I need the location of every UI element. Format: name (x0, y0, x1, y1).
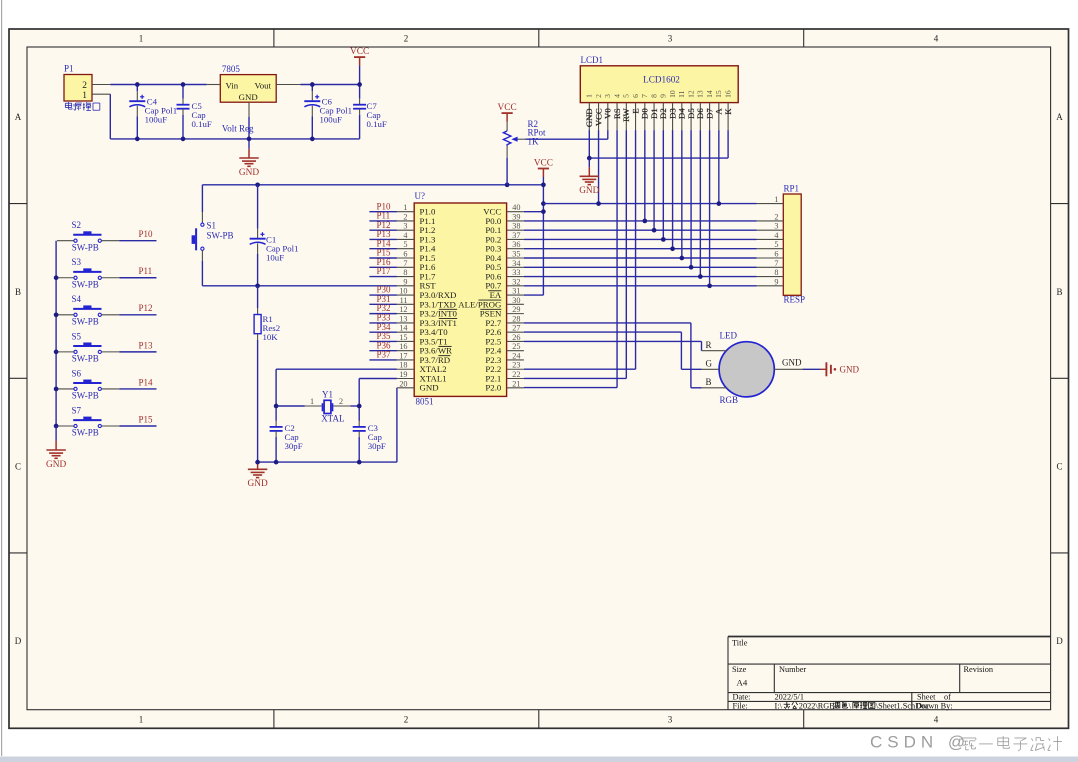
svg-text:2: 2 (403, 212, 407, 221)
svg-text:of: of (944, 693, 951, 702)
svg-text:17: 17 (399, 351, 407, 360)
svg-text:20: 20 (399, 379, 407, 388)
svg-text:P1: P1 (64, 64, 74, 74)
svg-text:10: 10 (668, 90, 677, 98)
svg-text:Number: Number (779, 665, 806, 674)
svg-text:2: 2 (404, 34, 409, 44)
svg-text:GND: GND (46, 460, 66, 470)
svg-text:2: 2 (404, 715, 409, 725)
svg-text:4: 4 (774, 231, 778, 240)
svg-text:3: 3 (668, 34, 673, 44)
svg-text:P15: P15 (139, 414, 154, 424)
svg-text:S1: S1 (207, 221, 217, 231)
svg-text:LED: LED (720, 331, 738, 341)
svg-text:37: 37 (512, 231, 520, 240)
svg-text:14: 14 (399, 324, 407, 333)
svg-text:SW-PB: SW-PB (72, 354, 99, 364)
svg-text:1: 1 (139, 34, 144, 44)
svg-text:8051: 8051 (416, 397, 434, 407)
svg-text:D: D (15, 636, 22, 646)
svg-text:Title: Title (732, 639, 748, 648)
svg-text:GND: GND (239, 92, 258, 102)
svg-text:CSDN @: CSDN @ (870, 733, 970, 752)
svg-text:A: A (1056, 112, 1063, 122)
svg-text:VCC: VCC (498, 103, 517, 113)
svg-text:22: 22 (512, 370, 520, 379)
svg-text:U?: U? (415, 191, 426, 201)
svg-text:P2.0: P2.0 (485, 383, 501, 393)
svg-text:4: 4 (934, 715, 939, 725)
svg-text:GND: GND (782, 358, 802, 368)
svg-text:1: 1 (82, 91, 87, 101)
svg-text:14: 14 (705, 90, 714, 98)
svg-text:B: B (706, 377, 712, 387)
svg-text:11: 11 (400, 296, 408, 305)
svg-text:S3: S3 (72, 257, 82, 267)
svg-text:Revision: Revision (964, 665, 994, 674)
svg-text:R: R (706, 340, 712, 350)
svg-text:10: 10 (399, 287, 407, 296)
svg-text:25: 25 (512, 342, 520, 351)
svg-text:23: 23 (512, 361, 520, 370)
svg-text:2: 2 (339, 397, 343, 406)
svg-text:GND: GND (420, 383, 439, 393)
svg-text:6: 6 (403, 250, 407, 259)
svg-text:7: 7 (774, 259, 778, 268)
svg-text:32: 32 (512, 277, 520, 286)
svg-text:26: 26 (512, 333, 520, 342)
svg-text:3: 3 (403, 222, 407, 231)
svg-text:P37: P37 (377, 350, 392, 360)
svg-text:Size: Size (732, 665, 747, 674)
svg-text:33: 33 (512, 268, 520, 277)
svg-text:12: 12 (686, 90, 695, 98)
svg-text:1: 1 (403, 203, 407, 212)
svg-text:1: 1 (310, 397, 314, 406)
svg-text:6: 6 (774, 250, 778, 259)
svg-text:XTAL: XTAL (321, 414, 344, 424)
svg-text:28: 28 (512, 314, 520, 323)
svg-text:13: 13 (399, 314, 407, 323)
svg-text:1: 1 (139, 715, 144, 725)
svg-text:38: 38 (512, 222, 520, 231)
svg-text:2022\RGB: 2022\RGB (799, 701, 835, 710)
svg-text:RESP: RESP (784, 295, 806, 305)
svg-text:S7: S7 (72, 405, 82, 415)
svg-text:19: 19 (399, 370, 407, 379)
svg-text:2: 2 (82, 81, 87, 91)
svg-text:21: 21 (512, 379, 520, 388)
svg-text:C: C (15, 462, 21, 472)
svg-text:27: 27 (512, 324, 520, 333)
svg-text:P10: P10 (139, 229, 154, 239)
svg-text:I:\: I:\ (775, 701, 783, 710)
svg-text:5: 5 (774, 240, 778, 249)
svg-text:29: 29 (512, 305, 520, 314)
svg-text:S4: S4 (72, 294, 82, 304)
svg-text:8: 8 (649, 94, 658, 98)
svg-text:3: 3 (668, 715, 673, 725)
svg-text:P12: P12 (139, 303, 153, 313)
svg-text:Vin: Vin (226, 80, 239, 90)
svg-text:0.1uF: 0.1uF (192, 119, 212, 129)
svg-text:VCC: VCC (350, 47, 369, 57)
svg-text:3: 3 (603, 94, 612, 98)
svg-text:8: 8 (774, 268, 778, 277)
svg-text:35: 35 (512, 250, 520, 259)
svg-text:7: 7 (640, 94, 649, 98)
svg-text:13: 13 (696, 90, 705, 98)
svg-text:40: 40 (512, 203, 520, 212)
svg-text:30pF: 30pF (285, 441, 303, 451)
svg-text:D: D (1056, 636, 1063, 646)
svg-text:100uF: 100uF (320, 114, 343, 124)
svg-text:30pF: 30pF (368, 441, 386, 451)
svg-text:1: 1 (585, 94, 594, 98)
svg-text:RP1: RP1 (784, 183, 800, 193)
svg-text:15: 15 (714, 90, 723, 98)
svg-text:16: 16 (723, 90, 732, 98)
svg-text:9: 9 (403, 277, 407, 286)
svg-text:30: 30 (512, 296, 520, 305)
svg-text:SW-PB: SW-PB (207, 230, 234, 240)
svg-text:P14: P14 (139, 377, 154, 387)
svg-text:G: G (706, 359, 713, 369)
svg-text:18: 18 (399, 361, 407, 370)
svg-text:SW-PB: SW-PB (72, 428, 99, 438)
svg-text:S2: S2 (72, 220, 82, 230)
svg-text:4: 4 (403, 231, 407, 240)
svg-text:15: 15 (399, 333, 407, 342)
svg-text:4: 4 (612, 94, 621, 98)
svg-text:2: 2 (594, 94, 603, 98)
svg-text:9: 9 (774, 277, 778, 286)
svg-text:100uF: 100uF (145, 114, 168, 124)
svg-text:GND: GND (840, 365, 860, 375)
svg-text:LCD1602: LCD1602 (643, 74, 680, 84)
svg-text:Drawn By:: Drawn By: (916, 701, 953, 710)
svg-text:S5: S5 (72, 331, 82, 341)
svg-text:Vout: Vout (255, 80, 272, 90)
svg-text:5: 5 (403, 240, 407, 249)
svg-text:7805: 7805 (222, 64, 241, 74)
svg-text:B: B (15, 287, 21, 297)
svg-text:Date:: Date: (733, 693, 751, 702)
svg-text:10uF: 10uF (266, 252, 284, 262)
svg-text:B: B (1056, 287, 1062, 297)
svg-text:6: 6 (631, 94, 640, 98)
svg-text:24: 24 (512, 351, 520, 360)
svg-text:11: 11 (677, 90, 686, 98)
svg-text:4: 4 (934, 34, 939, 44)
svg-text:P11: P11 (139, 266, 153, 276)
svg-text:VCC: VCC (534, 159, 553, 169)
svg-text:9: 9 (659, 94, 668, 98)
svg-text:31: 31 (512, 287, 520, 296)
svg-text:Y1: Y1 (322, 389, 333, 399)
svg-text:2022/5/1: 2022/5/1 (775, 693, 805, 702)
svg-text:8: 8 (403, 268, 407, 277)
svg-text:34: 34 (512, 259, 520, 268)
svg-text:File:: File: (733, 701, 748, 710)
svg-text:S6: S6 (72, 368, 82, 378)
svg-text:A4: A4 (737, 678, 748, 688)
svg-text:GND: GND (239, 168, 259, 178)
svg-text:10K: 10K (263, 332, 279, 342)
svg-text:C: C (1056, 462, 1062, 472)
svg-text:1K: 1K (528, 136, 540, 146)
svg-text:A: A (15, 112, 22, 122)
svg-text:3: 3 (774, 222, 778, 231)
svg-text:K: K (723, 108, 733, 115)
svg-text:LCD1: LCD1 (581, 55, 604, 65)
svg-text:7: 7 (403, 259, 407, 268)
svg-text:GND: GND (248, 479, 268, 489)
svg-text:39: 39 (512, 212, 520, 221)
svg-text:Sheet: Sheet (917, 693, 936, 702)
svg-text:P13: P13 (139, 340, 154, 350)
svg-text:SW-PB: SW-PB (72, 317, 99, 327)
svg-text:36: 36 (512, 240, 520, 249)
svg-text:2: 2 (774, 212, 778, 221)
svg-text:P17: P17 (377, 266, 392, 276)
svg-text:SW-PB: SW-PB (72, 279, 99, 289)
svg-text:12: 12 (399, 305, 407, 314)
svg-text:16: 16 (399, 342, 407, 351)
svg-text:0.1uF: 0.1uF (367, 119, 387, 129)
svg-text:SW-PB: SW-PB (72, 242, 99, 252)
svg-text:GND: GND (579, 186, 599, 196)
svg-text:1: 1 (774, 195, 778, 204)
svg-text:5: 5 (622, 94, 631, 98)
svg-text:SW-PB: SW-PB (72, 391, 99, 401)
svg-text:RGB: RGB (720, 395, 739, 405)
